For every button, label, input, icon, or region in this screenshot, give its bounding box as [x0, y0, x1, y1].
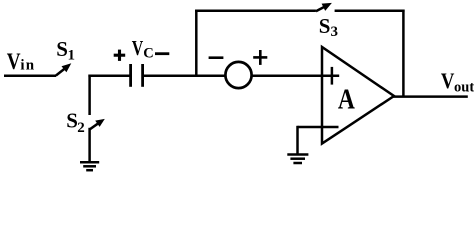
wire node down to S2 — [88, 75, 91, 116]
label + (op-amp plus marker, vertical bar) — [331, 67, 334, 85]
svg-text:out: out — [454, 80, 474, 96]
svg-text:C: C — [143, 45, 153, 61]
svg-text:2: 2 — [77, 120, 85, 136]
wire node to capacitor — [88, 74, 129, 77]
svg-text:S: S — [56, 37, 68, 61]
capacitor C (VC) — [131, 64, 143, 87]
svg-text:3: 3 — [331, 24, 339, 40]
ground (left, below S2) — [80, 162, 99, 170]
wire feedback top-left segment — [195, 10, 316, 13]
switch S2 — [89, 119, 104, 130]
wire S2 to ground — [88, 128, 91, 162]
label S1 — [56, 37, 75, 64]
wire feedback top-right segment — [335, 10, 405, 13]
voltage source — [225, 62, 251, 88]
svg-text:V: V — [132, 36, 144, 60]
wire input Vin — [4, 74, 56, 77]
svg-text:V: V — [441, 68, 455, 93]
label - (capacitor minus) — [155, 52, 169, 55]
wire op-amp minus input (with minus marker) — [298, 126, 339, 129]
svg-text:V: V — [7, 49, 21, 74]
wire capacitor to source — [144, 74, 226, 77]
wire source to op-amp plus input — [251, 74, 339, 77]
switch S3 — [316, 3, 332, 11]
wire minus input down to ground — [296, 126, 299, 154]
label Vin — [7, 49, 36, 74]
label + (capacitor plus) — [114, 50, 126, 61]
wire feedback right vertical — [402, 10, 405, 98]
wire output — [393, 95, 468, 98]
label S2 — [66, 108, 84, 136]
wire feedback left vertical — [195, 10, 198, 77]
svg-text:1: 1 — [68, 48, 76, 64]
label Vout — [441, 68, 474, 96]
label VC — [132, 36, 154, 61]
label S3 — [319, 14, 338, 40]
ground (right, op-amp minus) — [287, 155, 308, 164]
svg-text:S: S — [319, 14, 331, 38]
svg-text:A: A — [338, 84, 355, 116]
switch S1 — [56, 63, 72, 75]
label - (source minus) — [209, 56, 224, 59]
svg-text:in: in — [20, 58, 35, 74]
op-amp A — [322, 47, 394, 144]
label + (source plus) — [253, 50, 267, 65]
